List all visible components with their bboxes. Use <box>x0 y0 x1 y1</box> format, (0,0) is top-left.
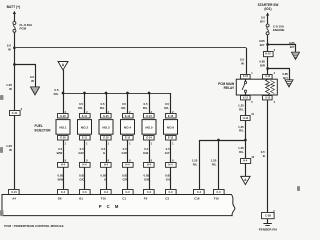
wire junction to H-4 <box>245 140 247 158</box>
value label 0.5 G/Y col6 <box>165 147 170 155</box>
svg-text:C-41: C-41 <box>12 112 18 115</box>
label FUEL INJECTOR <box>35 124 52 133</box>
value label 0.5 R/L col5 <box>143 102 148 110</box>
value label 1.25 R/L relay out <box>238 104 244 112</box>
value label 0.5 G/O col2 <box>78 147 84 155</box>
svg-text:C16: C16 <box>194 197 200 201</box>
svg-text:PCM : POWERTRAIN CONTROL MODUL: PCM : POWERTRAIN CONTROL MODULE <box>4 224 63 228</box>
svg-text:B/Y: B/Y <box>283 76 288 80</box>
wire starter switch feed arrow <box>266 12 269 23</box>
connector C-3 PCM col5 <box>144 190 155 195</box>
svg-text:B/Y: B/Y <box>260 43 265 47</box>
wire H-4 to PCM col5 <box>149 167 151 189</box>
svg-text:NO.1: NO.1 <box>59 126 67 130</box>
connector E-25 bottom of injector NO.3 <box>101 136 112 141</box>
fuel injector NO.2 <box>78 120 92 135</box>
svg-text:NO.4: NO.4 <box>124 126 132 130</box>
value label 3.0 W <box>30 75 35 83</box>
node junction feed2 <box>217 139 220 142</box>
connector E-13 top of injector NO.6 <box>166 114 177 119</box>
connector X-12 relay bottom right <box>263 96 273 100</box>
node junction injector bus <box>62 92 65 95</box>
svg-text:H-4: H-4 <box>147 164 152 167</box>
svg-text:W: W <box>31 79 34 83</box>
node junction injector bus col4 <box>126 92 129 95</box>
value label 0.85 G/O col2 <box>79 174 85 182</box>
svg-text:W: W <box>8 48 11 52</box>
svg-text:E-24: E-24 <box>146 115 152 118</box>
connector H-4 right <box>241 159 251 164</box>
svg-text:E-26: E-26 <box>60 137 66 140</box>
svg-text:B/Y: B/Y <box>260 19 265 23</box>
svg-text:X-12: X-12 <box>265 96 271 99</box>
value label 0.85 B/Y left <box>259 39 265 47</box>
svg-text:E-12: E-12 <box>125 115 131 118</box>
wire injector NO.2 to H-4 <box>84 140 86 162</box>
svg-text:H-4: H-4 <box>82 164 87 167</box>
svg-text:F10: F10 <box>101 197 106 201</box>
connector H-10 upper <box>264 52 274 57</box>
node junction injector bus col3 <box>105 92 108 95</box>
svg-text:X-12: X-12 <box>243 75 249 78</box>
svg-text:C-3: C-3 <box>104 191 109 194</box>
node junction injector bus col5 <box>148 92 151 95</box>
wire ground branch <box>15 65 36 88</box>
svg-text:C-28: C-28 <box>265 214 271 218</box>
svg-text:E-26: E-26 <box>60 115 66 118</box>
connector E-24 bottom of injector NO.5 <box>144 136 155 141</box>
svg-text:H-4: H-4 <box>125 164 130 167</box>
connector C-3 PCM col1 <box>58 190 69 195</box>
svg-text:NO.3: NO.3 <box>102 126 110 130</box>
svg-text:BATT (+): BATT (+) <box>7 5 21 9</box>
connector H-4 col2 <box>80 163 91 168</box>
svg-text:F9: F9 <box>144 197 148 201</box>
fuel injector NO.1 <box>56 120 70 135</box>
value label 0.5 R/L col2 <box>78 102 83 110</box>
svg-text:E-12: E-12 <box>125 137 131 140</box>
fuse C-8 15A ENGINE <box>266 24 269 35</box>
value label 0.85 G/Y col6 <box>165 174 171 182</box>
wire battery feed arrow <box>13 11 16 22</box>
ground chassis left <box>31 87 40 95</box>
wire bus to relay switch <box>246 48 248 74</box>
node junction fuse output <box>266 43 269 46</box>
svg-text:R/L: R/L <box>121 106 126 110</box>
svg-text:R/L: R/L <box>193 162 198 166</box>
fuel injector NO.5 <box>142 120 156 135</box>
svg-text:E-13: E-13 <box>168 115 174 118</box>
svg-text:R/L: R/L <box>164 106 169 110</box>
svg-text:G/O: G/O <box>79 177 85 181</box>
value label 2.0 W <box>7 44 12 52</box>
ground chassis upper right <box>292 52 300 59</box>
node junction coil feed <box>266 67 269 70</box>
value label 0.5 B/W col1 <box>57 147 63 155</box>
svg-text:G/B: G/B <box>143 151 148 155</box>
svg-text:X-12: X-12 <box>243 96 249 99</box>
wire relay output to H-10 <box>245 100 247 116</box>
fuel injector NO.4 <box>121 120 135 135</box>
wire H-4 to PCM col6 <box>170 167 172 189</box>
wire branch to ground B/Y lower <box>268 69 290 80</box>
connector C-3 PCM feed2 <box>214 190 225 195</box>
value label 0.5 R/L col1 <box>54 88 59 96</box>
wire H-4 to PCM col3 <box>106 167 108 189</box>
svg-text:R/L: R/L <box>239 107 244 111</box>
wire bus drop to injector NO.3 <box>106 93 108 114</box>
svg-text:G/B: G/B <box>144 177 149 181</box>
value label 0.5 G/R col4 <box>122 147 128 155</box>
value label 0.85 B/Y upper right <box>289 41 295 49</box>
svg-text:G/Y: G/Y <box>165 151 170 155</box>
value label 0.85 B/W col1 <box>58 174 64 182</box>
connector C-28 <box>262 213 275 219</box>
svg-text:W: W <box>9 87 12 91</box>
svg-text:C-3: C-3 <box>82 191 87 194</box>
connector C-41 <box>10 111 21 116</box>
relay switch contact <box>242 79 247 95</box>
wire injector NO.4 to H-4 <box>127 140 129 162</box>
connector H-4 col1 <box>58 163 69 168</box>
connector X-12 relay top right <box>263 75 273 79</box>
svg-text:H-10: H-10 <box>243 117 249 120</box>
svg-text:INJECTOR: INJECTOR <box>35 128 52 132</box>
svg-text:R/L: R/L <box>239 129 244 133</box>
connector X-12 relay top left <box>241 75 251 79</box>
wire feed2 drop <box>218 140 220 189</box>
svg-text:H-4: H-4 <box>168 164 173 167</box>
svg-text:E-13: E-13 <box>168 137 174 140</box>
scan artifact smudges (decorative) <box>0 95 300 216</box>
connector C-3 PCM col2 <box>80 190 91 195</box>
svg-text:FUEL: FUEL <box>35 124 43 128</box>
fuel injector NO.6 <box>164 120 178 135</box>
wire H-4 to PCM col1 <box>63 167 65 189</box>
svg-text:A4: A4 <box>12 197 16 201</box>
wire branch to ground B/Y upper <box>268 45 296 53</box>
value label FL-8 30A PCM <box>20 23 34 31</box>
svg-text:B1: B1 <box>79 197 83 201</box>
svg-text:C-3: C-3 <box>197 191 202 194</box>
value label 0.5 G col3 <box>101 147 106 155</box>
svg-text:C-3: C-3 <box>147 191 152 194</box>
svg-text:R/L: R/L <box>239 150 244 154</box>
svg-text:E-11: E-11 <box>82 115 88 118</box>
connector E-11 top of injector NO.2 <box>80 114 91 119</box>
wire injector NO.6 to H-4 <box>170 140 172 162</box>
svg-text:C-3: C-3 <box>168 191 173 194</box>
node junction battery bus <box>13 46 16 49</box>
relay PCM MAIN RELAY box <box>236 79 277 95</box>
wire A to injector bus <box>63 70 65 93</box>
svg-text:ENGINE: ENGINE <box>273 28 285 32</box>
connector H-4 col5 <box>144 163 155 168</box>
svg-text:E-24: E-24 <box>146 137 152 140</box>
svg-text:P C M: P C M <box>99 204 121 209</box>
svg-text:NO.6: NO.6 <box>167 126 175 130</box>
svg-text:B/Y: B/Y <box>290 45 295 49</box>
svg-text:H-4: H-4 <box>104 164 109 167</box>
svg-text:R/L: R/L <box>143 106 148 110</box>
wire battery feed to PCM <box>14 48 16 111</box>
wire bus drop to injector NO.2 <box>84 93 86 114</box>
svg-text:C-3: C-3 <box>61 191 66 194</box>
value label 3.0 B/Y <box>260 16 265 24</box>
value label 0.85 B/R <box>259 60 266 68</box>
svg-text:H-10: H-10 <box>265 53 271 56</box>
connector C-3 PCM col6 <box>166 190 177 195</box>
value label 1.25 R/L mid <box>238 125 244 133</box>
connector C-3 PCM col4 <box>123 190 134 195</box>
connector E-13 bottom of injector NO.6 <box>166 136 177 141</box>
wire bus drop to injector NO.5 <box>149 93 151 114</box>
svg-text:C-3: C-3 <box>125 191 130 194</box>
svg-text:R/L: R/L <box>100 106 105 110</box>
ground chassis mid right <box>285 80 293 87</box>
value label C-8 15A ENGINE <box>273 24 285 32</box>
connector E-11 bottom of injector NO.2 <box>80 136 91 141</box>
svg-text:E-11: E-11 <box>82 137 88 140</box>
connector X-12 relay bottom left <box>241 96 251 100</box>
wire injector NO.1 to H-4 <box>63 140 65 162</box>
svg-text:C1: C1 <box>122 197 126 201</box>
value label 0.85 G col3 <box>101 174 107 182</box>
value label 1.25 R/L to A <box>238 146 244 154</box>
label PCM MAIN RELAY <box>218 82 235 90</box>
value label 3.0 W relay feed <box>240 58 245 66</box>
value label 1.25 R/L feed2 <box>211 159 217 167</box>
svg-text:R/L: R/L <box>54 92 59 96</box>
svg-text:NO.5: NO.5 <box>145 126 153 130</box>
wire bus drop to injector NO.4 <box>127 93 129 114</box>
wire bus drop to injector NO.6 <box>170 93 172 114</box>
value label 1.25 R/L feed1 <box>192 159 198 167</box>
node junction distribution <box>244 139 247 142</box>
svg-text:G/O: G/O <box>78 151 84 155</box>
PCM powertrain control module box <box>2 195 235 216</box>
svg-text:B/W: B/W <box>58 177 64 181</box>
relay coil <box>266 80 275 96</box>
connector E-25 top of injector NO.3 <box>101 114 112 119</box>
svg-text:H-4: H-4 <box>243 159 248 162</box>
connector C-3 PCM col3 <box>101 190 112 195</box>
wire H-4 to PCM col2 <box>84 167 86 189</box>
svg-text:H-4: H-4 <box>61 164 66 167</box>
connector H-4 col4 <box>123 163 134 168</box>
connector C-3 PCM feed1 <box>194 190 205 195</box>
svg-text:W: W <box>9 148 12 152</box>
wire injector supply bus <box>63 93 171 95</box>
ground FENDER RH <box>263 219 271 226</box>
connector H-4 col3 <box>101 163 112 168</box>
wire fuse to junction <box>267 35 269 51</box>
node A (page reference triangle lower) <box>241 176 250 184</box>
value label 0.5 R/L col3 <box>100 102 105 110</box>
wire FL-8 to bus <box>14 32 16 48</box>
wire C-41 to C-21 <box>14 116 16 190</box>
svg-text:B/W: B/W <box>57 151 63 155</box>
svg-text:R/L: R/L <box>78 106 83 110</box>
value label 1.25 W upper <box>6 83 12 91</box>
svg-text:E-25: E-25 <box>103 115 109 118</box>
connector E-26 top of injector NO.1 <box>58 114 69 119</box>
svg-text:C3: C3 <box>165 197 169 201</box>
svg-text:D6: D6 <box>58 197 62 201</box>
connector H-10 lower <box>241 116 251 121</box>
svg-text:R/L: R/L <box>212 162 217 166</box>
wire relay coil to C-28 <box>267 100 269 213</box>
svg-text:NO.2: NO.2 <box>81 126 89 130</box>
wire H-10 to distribution junction <box>245 120 247 140</box>
wire H-10 to relay coil <box>267 56 269 74</box>
wire main battery bus <box>14 47 246 49</box>
fusible link FL-8 30A PCM <box>13 22 16 33</box>
connector E-26 bottom of injector NO.1 <box>58 136 69 141</box>
wire distribution bus to PCM feeds <box>200 141 246 190</box>
svg-text:F16: F16 <box>214 197 219 201</box>
svg-text:E-25: E-25 <box>103 137 109 140</box>
svg-text:X-12: X-12 <box>265 75 271 78</box>
connector C-21 <box>9 190 20 195</box>
value label 0.85 G/B col5 <box>144 174 150 182</box>
node A (page reference triangle) <box>58 62 68 71</box>
value label 0.85 G/R col4 <box>122 174 129 182</box>
value label 0.5 G/B col5 <box>143 147 149 155</box>
value label 0.5 B <box>261 150 265 158</box>
connector E-24 top of injector NO.5 <box>144 114 155 119</box>
svg-text:(IG1): (IG1) <box>264 7 271 11</box>
wire injector NO.5 to H-4 <box>149 140 151 162</box>
svg-text:B: B <box>263 154 265 158</box>
fuel injector NO.3 <box>99 120 113 135</box>
value label 0.5 R/L col4 <box>121 102 126 110</box>
wire injector NO.3 to H-4 <box>106 140 108 162</box>
wire H-4 to PCM col4 <box>127 167 129 189</box>
node STARTER SW (IG1) label <box>258 3 279 11</box>
node junction injector bus col2 <box>83 92 86 95</box>
svg-text:W: W <box>241 61 244 65</box>
svg-text:PCM: PCM <box>20 27 27 31</box>
node junction ground branch <box>13 63 16 66</box>
connector E-12 bottom of injector NO.4 <box>123 136 134 141</box>
svg-text:C-21: C-21 <box>11 191 17 194</box>
wire bus drop to injector NO.1 <box>63 93 65 114</box>
value label 1.25 W lower <box>6 144 12 152</box>
svg-text:C-3: C-3 <box>216 191 221 194</box>
value label 0.85 B/Y lower right <box>282 72 288 80</box>
svg-text:RELAY: RELAY <box>224 86 235 90</box>
wire H-4 to node A <box>245 163 247 176</box>
value label 0.5 R/L col6 <box>164 102 169 110</box>
svg-text:FENDER RH: FENDER RH <box>259 227 278 231</box>
connector H-4 col6 <box>166 163 177 168</box>
connector E-12 top of injector NO.4 <box>123 114 134 119</box>
svg-text:G/Y: G/Y <box>166 177 171 181</box>
